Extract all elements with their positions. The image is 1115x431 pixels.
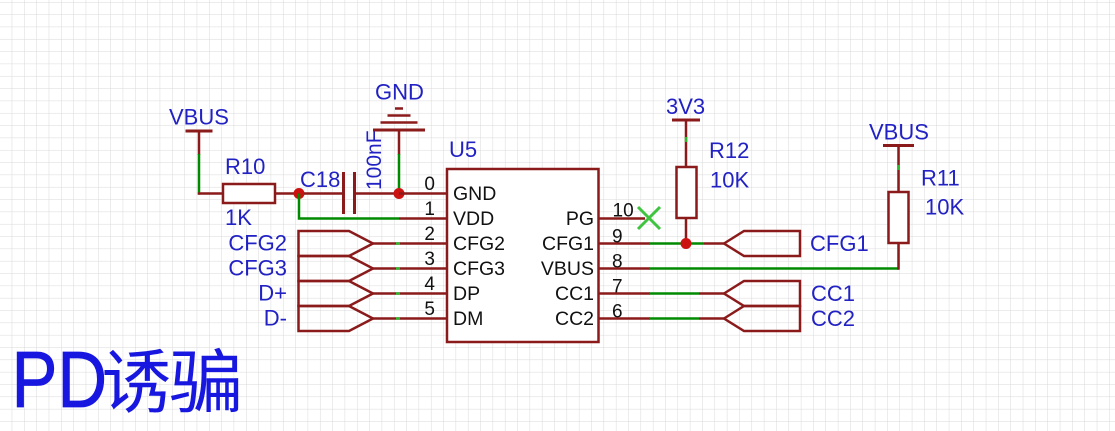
svg-text:CFG1: CFG1 [542,233,594,255]
pin names U5 right [541,208,594,330]
svg-text:1K: 1K [225,205,252,230]
wire pin 8 (VBUS net) [599,267,900,270]
svg-text:CFG2: CFG2 [453,233,505,255]
svg-text:5: 5 [424,299,435,320]
power flag VBUS (right) [869,120,929,193]
svg-text:100nF: 100nF [363,130,386,190]
junction node B [394,188,405,199]
svg-text:CC1: CC1 [555,283,594,305]
svg-text:GND: GND [453,183,496,205]
svg-text:CFG3: CFG3 [453,258,505,280]
net port CFG3 [228,256,373,282]
svg-text:2: 2 [424,224,435,245]
wire pin 5 [373,317,447,320]
net port CFG2 [228,231,373,257]
wire pin 2 [373,242,447,245]
net port D- [264,306,373,332]
title text PD [12,335,108,424]
svg-text:1: 1 [424,199,435,220]
resistor R10 [223,154,275,230]
svg-text:GND: GND [375,80,424,105]
title glyph pian (骗) [171,348,238,412]
ground GND symbol [373,80,425,156]
svg-text:10K: 10K [710,168,749,193]
svg-text:R10: R10 [225,154,265,179]
svg-text:R12: R12 [709,138,749,163]
net port CFG1 [724,231,869,256]
junction node C [681,238,692,249]
svg-text:R11: R11 [921,166,960,191]
svg-text:CFG1: CFG1 [810,231,869,256]
svg-text:CFG3: CFG3 [228,256,287,281]
net port CC1 [724,281,855,306]
svg-text:CC1: CC1 [811,281,855,306]
capacitor C18 [300,130,399,214]
wire pin 6 [599,317,725,320]
svg-text:4: 4 [424,274,435,295]
net port CC2 [724,306,855,331]
wire pin 1 stub [399,217,447,220]
pin names U5 left [453,183,505,330]
svg-text:U5: U5 [449,137,477,162]
svg-text:PD: PD [12,335,108,424]
svg-text:VBUS: VBUS [869,120,929,145]
svg-text:VBUS: VBUS [541,258,594,280]
svg-text:CFG2: CFG2 [228,231,287,256]
resistor R11 [889,166,965,270]
svg-text:3V3: 3V3 [666,94,705,119]
junction node A [294,188,305,199]
wire node A down to VDD row [299,194,399,219]
wire pin 9 [599,242,725,245]
wire pin 3 [373,267,447,270]
svg-text:VBUS: VBUS [169,105,229,130]
svg-text:10K: 10K [925,195,964,220]
svg-text:D-: D- [264,306,287,331]
svg-text:3: 3 [424,249,435,270]
no-connect X pin 10 [638,207,660,229]
wire pin 7 [599,292,725,295]
net port D+ [258,281,373,307]
svg-text:DP: DP [453,283,480,305]
wire pin 0 stub [399,192,447,195]
pin numbers U5 left [424,174,435,320]
op-amp U5 body [447,137,599,342]
title glyph you (诱) [105,349,170,413]
pin numbers U5 right [612,201,634,323]
wire pin 10 stub [599,217,646,220]
wire GND to node B [398,154,401,194]
svg-text:VDD: VDD [453,208,494,230]
svg-text:C18: C18 [300,167,340,192]
wire R10 to node A [275,192,299,195]
svg-text:CC2: CC2 [811,306,855,331]
svg-text:0: 0 [424,174,435,195]
svg-text:DM: DM [453,308,483,330]
svg-text:D+: D+ [258,281,287,306]
power flag 3V3 [666,94,705,167]
resistor R12 [677,138,750,244]
svg-text:CC2: CC2 [555,308,594,330]
wire VBUS to R10 [198,154,224,195]
power flag VBUS (left) [169,105,229,156]
wire pin 4 [373,292,447,295]
svg-text:PG: PG [566,208,594,230]
